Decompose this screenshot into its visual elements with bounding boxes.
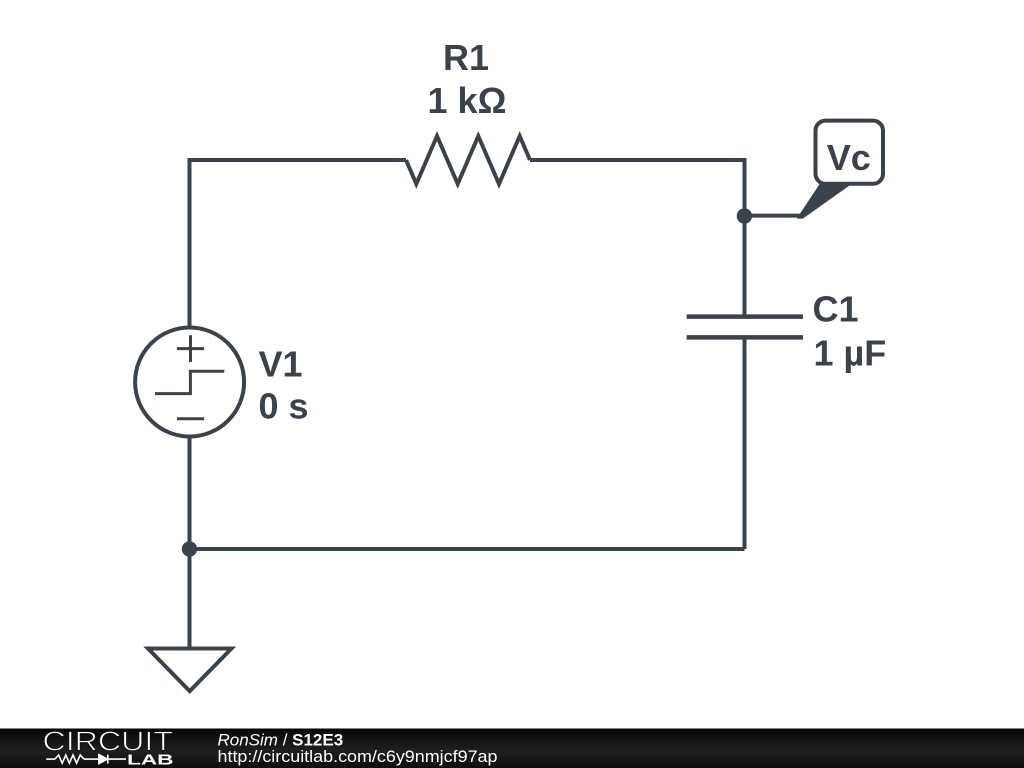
wire: node stub toward Vc flag [744,214,800,218]
V1 plus sign [177,335,204,362]
net flag Vc pointer [799,184,850,218]
wire: R1 right lead to top-right corner down to node Vc [530,160,745,216]
svg-text:0 s: 0 s [259,386,309,427]
svg-text:1 µF: 1 µF [814,333,887,374]
svg-text:LAB: LAB [127,752,174,768]
svg-text:C1: C1 [813,289,859,330]
wire: node Vc down to C1 top plate [743,216,747,315]
resistor R1 zigzag [406,136,530,184]
capacitor C1 top plate [687,314,803,319]
svg-text:1 kΩ: 1 kΩ [428,80,507,121]
wire: bottom rail [190,547,745,551]
junction node dot at Vc [737,208,752,223]
footer black bar [0,729,1024,768]
ground symbol triangle [148,649,232,692]
V1 step waveform symbol [155,371,224,393]
junction node dot at ground rail [182,541,197,556]
svg-text:http://circuitlab.com/c6y9nmjc: http://circuitlab.com/c6y9nmjcf97ap [218,747,498,766]
wire: C1 bottom plate down to bottom rail [743,340,747,550]
svg-text:R1: R1 [443,37,489,78]
wire: V1 top pin up and top rail to R1 left lead [190,160,407,328]
V1 minus sign [177,417,204,420]
svg-text:V1: V1 [259,343,303,384]
wire: V1 bottom pin down to ground node [188,436,192,549]
voltage source V1 circle [135,328,244,437]
wire: ground stem [188,549,192,649]
svg-text:Vc: Vc [827,137,871,178]
capacitor C1 bottom plate [687,335,803,340]
net flag Vc box [816,121,884,184]
CircuitLab logo resistor-diode symbol [46,755,126,764]
